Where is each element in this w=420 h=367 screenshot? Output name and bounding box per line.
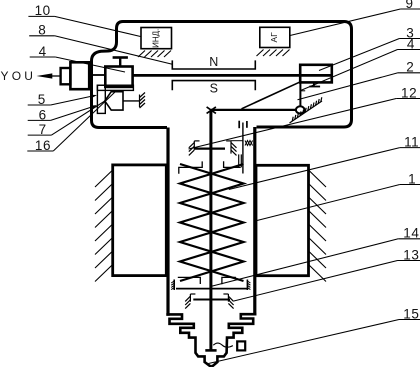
lower crossbar left support xyxy=(185,294,195,309)
hatching right block xyxy=(309,170,327,282)
lower seat post left xyxy=(171,280,174,291)
nozzle stepped profile left xyxy=(166,314,211,366)
coil box left 4 xyxy=(105,67,132,87)
armature rod xyxy=(133,74,331,77)
leader 4 right xyxy=(301,50,398,91)
magnet N bracket xyxy=(172,60,255,69)
input shaft stub xyxy=(93,74,105,76)
damper guide marks xyxy=(238,154,240,167)
svg-text:S: S xyxy=(210,82,218,96)
leader 12 xyxy=(189,99,397,150)
YOU arrow line xyxy=(49,75,61,77)
upper crossbar left support xyxy=(189,141,200,156)
IND box ground hatching xyxy=(138,51,171,58)
lever diagonal link xyxy=(242,82,301,109)
leader 9 xyxy=(290,9,400,36)
leader 6 xyxy=(51,106,96,121)
leader 5 xyxy=(51,95,96,105)
coil box left cap xyxy=(113,56,128,59)
upper seat bracket right xyxy=(224,161,241,167)
coil box right R4 xyxy=(300,65,332,83)
lower crossbar xyxy=(193,299,230,301)
arrowhead 6 xyxy=(90,105,97,109)
upper crossbar xyxy=(194,148,225,150)
lower seat bracket left xyxy=(178,277,201,284)
arrowhead 5 xyxy=(90,95,97,99)
damper rod xyxy=(242,123,244,174)
pivot lever horizontal xyxy=(211,109,296,111)
valve output line xyxy=(123,100,140,102)
leader 1 xyxy=(257,185,400,221)
AG box 9 xyxy=(260,27,290,47)
mounting block left xyxy=(113,165,167,276)
leader 10 xyxy=(55,16,141,36)
AG box ground hatching xyxy=(257,50,290,57)
svg-text:N: N xyxy=(209,55,218,69)
leader 11 xyxy=(229,148,400,190)
coil box right support stem xyxy=(313,82,315,86)
leader 8 xyxy=(55,36,173,65)
magnet S bracket xyxy=(172,81,255,91)
valve flat plate 16 xyxy=(97,85,133,90)
detail square 13 xyxy=(237,341,245,350)
lower seat bracket right xyxy=(222,277,236,284)
main spring coil A xyxy=(180,164,244,281)
valve vertical plate xyxy=(97,85,105,113)
damper link line xyxy=(231,140,243,142)
valve wall support xyxy=(140,93,146,109)
tip squiggle xyxy=(213,343,233,347)
leader 16 xyxy=(53,92,115,151)
pivot circle xyxy=(296,106,305,113)
mounting block right xyxy=(256,165,309,275)
leader 3 xyxy=(319,39,399,71)
coil box right support foot xyxy=(309,86,320,88)
upper seat bracket left xyxy=(179,161,202,173)
lower seat post right xyxy=(247,280,250,291)
valve pentagon 7 xyxy=(105,92,123,110)
body head outline xyxy=(123,22,352,128)
leader 7 xyxy=(52,101,105,135)
leader 2 xyxy=(298,73,399,100)
YOU input inner box xyxy=(61,68,71,84)
main spring coil B xyxy=(180,164,244,281)
pivot X mark xyxy=(207,107,216,114)
body head outline left stepped side xyxy=(92,22,168,128)
svg-text:YOU: YOU xyxy=(1,69,37,83)
leader 4 left xyxy=(55,57,125,72)
YOU input outer box xyxy=(70,62,89,89)
YOU arrowhead xyxy=(37,73,53,78)
main stem rod xyxy=(209,111,212,350)
svg-text:АГ: АГ xyxy=(269,32,279,43)
lower seat bar xyxy=(176,288,248,290)
leader 14 xyxy=(211,239,399,287)
column right wall xyxy=(253,127,256,316)
nozzle stepped profile right xyxy=(211,314,256,366)
inclined hatched support under pivot xyxy=(290,97,323,123)
hatching left block xyxy=(95,170,113,282)
damper cup walls xyxy=(238,121,240,129)
damper spring zigzag 12 xyxy=(245,141,253,146)
svg-text:ИНД.: ИНД. xyxy=(152,29,161,48)
leader 15 xyxy=(209,320,400,364)
vertical link box to pivot xyxy=(299,82,301,106)
upper crossbar right support xyxy=(226,141,236,156)
coil box left cap stem xyxy=(119,58,121,67)
stem foot xyxy=(205,349,216,352)
lower crossbar right support xyxy=(223,294,233,309)
IND box 10 xyxy=(141,28,172,49)
column left wall xyxy=(166,128,169,316)
leader 13 xyxy=(234,261,398,302)
